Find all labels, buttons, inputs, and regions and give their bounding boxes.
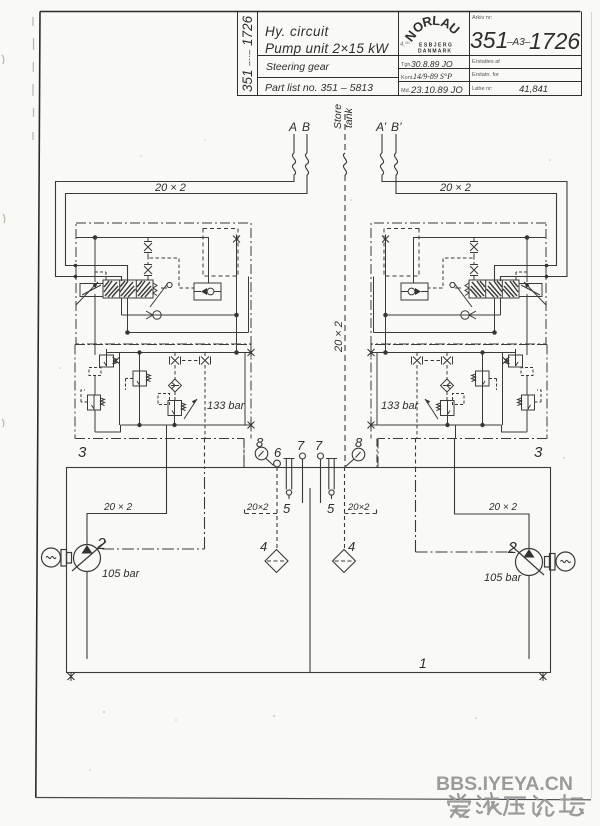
- level gauge 5 left: [284, 459, 295, 490]
- filter 4 left: [265, 550, 288, 573]
- corner test stars: [68, 672, 547, 681]
- store tank squiggle: [343, 153, 346, 175]
- dash-dot stub right: [376, 439, 378, 468]
- wire B' squiggle: [394, 153, 397, 175]
- svg-text:133 bar: 133 bar: [381, 400, 420, 412]
- wire A' squiggle: [380, 153, 383, 175]
- svg-text:Steering gear: Steering gear: [266, 61, 330, 73]
- svg-text:Erstattes af: Erstattes af: [472, 59, 500, 65]
- svg-text:1726: 1726: [529, 28, 580, 54]
- svg-text:3: 3: [534, 444, 543, 461]
- svg-text:Hy. circuit: Hy. circuit: [265, 24, 330, 39]
- tank centre divider: [309, 488, 311, 672]
- svg-text:7: 7: [315, 438, 323, 453]
- wire B supply to left block: [66, 175, 308, 281]
- svg-text:14/9-89 S°P: 14/9-89 S°P: [413, 72, 452, 81]
- svg-text:105 bar: 105 bar: [484, 572, 523, 584]
- svg-text:Tgn: Tgn: [401, 62, 410, 68]
- right pump pressure pipe: [455, 439, 530, 550]
- watermark BBS.IYEYA.CN: [436, 773, 573, 795]
- svg-text:30.8.89 JO: 30.8.89 JO: [411, 59, 453, 69]
- left drain dash-dot: [102, 468, 205, 550]
- dash-dot stub left: [243, 439, 245, 468]
- NORLAU logo: [400, 13, 463, 55]
- suction line to filter right (store tank line continues): [344, 467, 346, 549]
- svg-text:A’: A’: [375, 120, 387, 134]
- svg-text:3: 3: [78, 444, 87, 461]
- wire B squiggle: [305, 153, 308, 175]
- svg-text:5: 5: [283, 501, 291, 516]
- svg-text:105 bar: 105 bar: [102, 568, 141, 580]
- coupling: [550, 554, 556, 571]
- svg-text:2: 2: [96, 536, 106, 553]
- star bottom left: [68, 672, 75, 681]
- svg-text:A: A: [288, 120, 297, 134]
- svg-text:2: 2: [507, 540, 517, 557]
- pump unit left: [42, 542, 107, 572]
- svg-text:8: 8: [256, 435, 264, 450]
- fitting 6: [274, 460, 281, 467]
- wire A' supply wrap right: [382, 175, 567, 281]
- node B' riser: [395, 134, 397, 153]
- frame right (faint): [591, 12, 593, 798]
- svg-text:133 bar: 133 bar: [207, 400, 246, 412]
- filter 4 right: [333, 550, 356, 573]
- svg-text:20×2: 20×2: [347, 502, 370, 513]
- svg-text:351 –··– 1726: 351 –··– 1726: [240, 15, 255, 92]
- left valve block assembly: [75, 223, 255, 467]
- pump P1: [74, 545, 101, 572]
- machinery labels: [96, 435, 523, 671]
- svg-text:20 × 2: 20 × 2: [154, 182, 186, 194]
- store tank dashed line upper: [344, 114, 346, 153]
- svg-text:Arkiv nr:: Arkiv nr:: [472, 15, 493, 21]
- svg-text:1: 1: [419, 655, 427, 671]
- svg-text:5: 5: [327, 501, 335, 516]
- gauges and fittings row: [244, 439, 377, 573]
- svg-text:Løbe nr:: Løbe nr:: [472, 86, 493, 92]
- breather 7 left: [300, 453, 306, 459]
- svg-text:8: 8: [355, 435, 363, 450]
- suction line to filter left (dashed): [276, 467, 278, 549]
- svg-text:20 × 2: 20 × 2: [103, 502, 133, 513]
- pressure gauge 8 right: [352, 448, 365, 461]
- svg-text:23.10.89 JO: 23.10.89 JO: [410, 85, 463, 96]
- svg-text:4: 4: [260, 539, 267, 554]
- breather 7 right: [318, 453, 324, 459]
- 20x2 bracket right: [345, 508, 377, 514]
- pump unit right: [510, 545, 575, 576]
- svg-text:7: 7: [297, 438, 305, 453]
- pressure gauge 8 left: [255, 447, 268, 460]
- top labels: [154, 104, 471, 353]
- title block texts: [240, 15, 580, 96]
- svg-text:Pump unit 2×15 kW: Pump unit 2×15 kW: [265, 41, 389, 56]
- store tank dashed line to tank: [344, 175, 346, 467]
- svg-text:B: B: [302, 120, 310, 134]
- scan margin marks: [2, 17, 34, 427]
- svg-text:20 × 2: 20 × 2: [333, 321, 345, 353]
- svg-text:20 × 2: 20 × 2: [439, 182, 471, 194]
- svg-text:Erstatn. for: Erstatn. for: [472, 72, 499, 78]
- wire A squiggle: [292, 153, 295, 175]
- star bottom right: [540, 672, 547, 681]
- tank outline: [67, 468, 551, 673]
- svg-text:4,ºº: 4,ºº: [400, 41, 410, 48]
- svg-text:41,841: 41,841: [519, 84, 548, 95]
- svg-text:Part list no. 351 – 5813: Part list no. 351 – 5813: [265, 82, 373, 94]
- node A riser: [293, 134, 295, 153]
- 20x2 bracket left: [245, 508, 278, 514]
- motor M2: [556, 552, 575, 571]
- svg-text:351: 351: [470, 27, 508, 53]
- right valve block assembly (mirrored): [368, 223, 548, 467]
- pump P2: [516, 549, 543, 576]
- motor M1: [42, 548, 61, 567]
- title block: [238, 12, 582, 96]
- svg-text:4: 4: [348, 539, 355, 554]
- svg-text:tank: tank: [343, 107, 355, 128]
- coupling: [61, 550, 67, 567]
- watermark chinese characters (drawn strokes): [448, 793, 584, 817]
- svg-text:B’: B’: [391, 120, 402, 134]
- svg-text:Md.: Md.: [401, 88, 411, 94]
- svg-text:6: 6: [274, 445, 282, 460]
- svg-text:20×2: 20×2: [246, 502, 269, 513]
- paper speckles: [59, 139, 565, 771]
- junction dots left supply: [74, 264, 549, 279]
- node B riser: [306, 134, 308, 153]
- left pump suction pipe: [86, 572, 88, 660]
- wire B' supply to right block: [396, 175, 557, 281]
- right drain dashed above tank: [415, 439, 417, 468]
- right pump suction pipe: [528, 576, 530, 660]
- block labels: [78, 400, 543, 461]
- svg-text:BBS.IYEYA.CN: BBS.IYEYA.CN: [436, 773, 573, 795]
- drawing frame left: [36, 12, 40, 798]
- svg-text:20 × 2: 20 × 2: [488, 502, 518, 513]
- left drain dashed above tank: [204, 439, 206, 468]
- level gauge 5 right: [326, 459, 337, 490]
- svg-text:DANMARK: DANMARK: [418, 49, 452, 55]
- frame bottom: [36, 798, 592, 800]
- drawing frame top: [40, 11, 581, 13]
- svg-text:–A3–: –A3–: [506, 37, 531, 48]
- wire A down to corner: [56, 175, 295, 281]
- node A' riser: [381, 134, 383, 153]
- right drain dash-dot: [416, 468, 515, 553]
- left pump pressure pipe: [87, 439, 167, 546]
